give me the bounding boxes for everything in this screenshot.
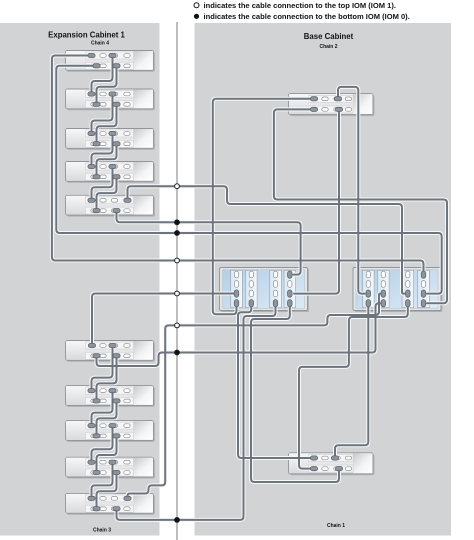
svg-text:Chain 2: Chain 2 (319, 44, 337, 50)
svg-text:Expansion Cabinet 1: Expansion Cabinet 1 (48, 31, 125, 40)
svg-text:Chain 1: Chain 1 (327, 523, 345, 529)
svg-text:Base Cabinet: Base Cabinet (304, 32, 354, 41)
svg-text:Chain 4: Chain 4 (91, 41, 109, 47)
svg-text:Chain 3: Chain 3 (93, 528, 111, 534)
svg-text:indicates the cable connection: indicates the cable connection to the bo… (204, 12, 410, 21)
svg-text:indicates the cable connection: indicates the cable connection to the to… (204, 1, 396, 10)
